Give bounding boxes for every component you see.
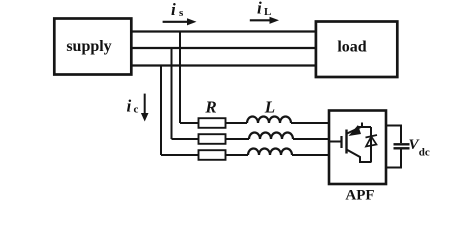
svg-text:i: i bbox=[257, 0, 262, 18]
svg-text:s: s bbox=[179, 7, 184, 19]
svg-text:L: L bbox=[264, 98, 275, 117]
svg-text:i: i bbox=[127, 97, 132, 116]
svg-text:dc: dc bbox=[419, 147, 430, 159]
svg-text:i: i bbox=[171, 0, 176, 19]
svg-text:APF: APF bbox=[345, 188, 374, 204]
svg-text:supply: supply bbox=[66, 38, 111, 55]
svg-text:load: load bbox=[337, 39, 366, 56]
svg-text:L: L bbox=[264, 6, 271, 18]
svg-text:c: c bbox=[134, 104, 139, 116]
svg-text:R: R bbox=[204, 98, 216, 117]
